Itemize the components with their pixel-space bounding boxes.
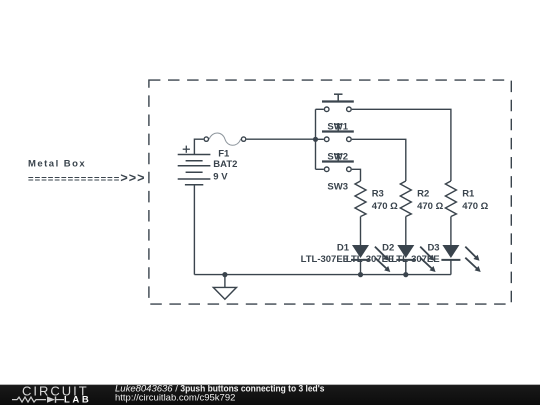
battery BAT2	[178, 155, 211, 185]
svg-text:==============>>>: ==============>>>	[28, 171, 146, 185]
CircuitLab logo	[12, 384, 91, 405]
wire SW2 to R2	[352, 139, 406, 181]
svg-text:D3: D3	[427, 242, 439, 253]
svg-text:Metal Box: Metal Box	[28, 158, 86, 169]
LED D3	[441, 245, 480, 272]
svg-text:LTL-307EE: LTL-307EE	[301, 254, 349, 265]
svg-text:R3: R3	[372, 189, 384, 200]
junction node ground-rail	[222, 272, 227, 277]
resistor R1	[445, 181, 456, 217]
wire battery- to bottom rail	[193, 185, 195, 275]
svg-text:LAB: LAB	[64, 394, 91, 405]
resistor R3	[355, 181, 366, 217]
svg-text:SW3: SW3	[327, 182, 348, 193]
wire R1 to D3	[450, 217, 452, 246]
svg-text:R1: R1	[462, 189, 475, 200]
svg-text:D2: D2	[382, 242, 394, 253]
wire SW3 to R3	[352, 169, 361, 181]
svg-text:470 Ω: 470 Ω	[462, 201, 488, 212]
junction node at switch bus	[313, 137, 318, 142]
junction node D1-rail	[358, 272, 363, 277]
ground	[213, 275, 236, 300]
footer bar	[0, 384, 540, 405]
wire R3 to D1	[360, 217, 362, 246]
LED D1	[351, 245, 390, 272]
wire battery+ to fuse	[194, 139, 203, 154]
pushbutton SW1	[322, 94, 354, 111]
battery plus sign	[183, 146, 190, 153]
wire left bus of switches	[316, 109, 324, 169]
svg-text:470 Ω: 470 Ω	[372, 201, 398, 212]
LED D2	[396, 245, 435, 272]
svg-text:LTL-307EE: LTL-307EE	[391, 254, 439, 265]
junction node D2-rail	[403, 272, 408, 277]
pushbutton SW3	[322, 154, 354, 171]
resistor R2	[400, 181, 411, 217]
svg-text:9 V: 9 V	[213, 171, 228, 182]
svg-text:BAT2: BAT2	[213, 159, 237, 170]
fuse F1	[204, 133, 246, 145]
pushbutton SW2	[322, 124, 354, 141]
svg-text:R2: R2	[417, 189, 429, 200]
svg-text:D1: D1	[337, 242, 350, 253]
wire D3 to bottom rail	[450, 260, 452, 275]
metal box dashed enclosure	[149, 80, 511, 304]
wire fuse to switches junction	[247, 138, 316, 140]
wire D1 to bottom rail	[360, 260, 362, 275]
svg-text:470 Ω: 470 Ω	[417, 201, 443, 212]
bottom rail wire	[194, 274, 451, 276]
svg-text:http://circuitlab.com/c95k792: http://circuitlab.com/c95k792	[115, 392, 235, 403]
wire R2 to D2	[405, 217, 407, 246]
wire D2 to bottom rail	[405, 260, 407, 275]
svg-text:LTL-307EE: LTL-307EE	[346, 254, 394, 265]
svg-text:F1: F1	[218, 149, 230, 160]
wire SW1 to R1	[352, 109, 451, 181]
